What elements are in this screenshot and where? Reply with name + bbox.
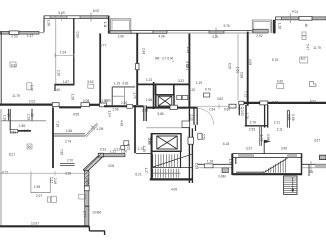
svg-text:0.61: 0.61 bbox=[100, 147, 106, 151]
svg-text:5.76: 5.76 bbox=[272, 58, 278, 62]
svg-text:0.98: 0.98 bbox=[266, 134, 270, 140]
svg-text:1.66: 1.66 bbox=[180, 106, 186, 110]
svg-text:2.70: 2.70 bbox=[67, 158, 73, 162]
svg-text:1.78: 1.78 bbox=[138, 147, 144, 151]
svg-text:2.11: 2.11 bbox=[277, 128, 283, 132]
svg-text:1.87: 1.87 bbox=[63, 80, 69, 84]
svg-text:6.21: 6.21 bbox=[135, 173, 141, 177]
svg-text:11.79: 11.79 bbox=[313, 46, 321, 50]
svg-text:4.08: 4.08 bbox=[158, 34, 164, 38]
svg-text:3.82: 3.82 bbox=[217, 97, 223, 101]
svg-text:1.62: 1.62 bbox=[148, 139, 152, 145]
svg-text:0.8M: 0.8M bbox=[218, 175, 225, 179]
svg-text:4.48: 4.48 bbox=[120, 120, 124, 126]
svg-text:0.60: 0.60 bbox=[75, 31, 79, 37]
svg-text:5.86: 5.86 bbox=[157, 112, 163, 116]
svg-text:1.07: 1.07 bbox=[29, 85, 33, 91]
svg-text:4.55: 4.55 bbox=[73, 112, 79, 116]
svg-text:1.79: 1.79 bbox=[132, 92, 136, 98]
svg-text:2.48: 2.48 bbox=[53, 178, 57, 184]
svg-text:1.63: 1.63 bbox=[195, 163, 199, 169]
svg-text:8.21: 8.21 bbox=[9, 152, 15, 156]
svg-text:1.18: 1.18 bbox=[207, 159, 213, 163]
svg-text:1.98: 1.98 bbox=[3, 115, 7, 121]
svg-text:1.26: 1.26 bbox=[287, 114, 291, 120]
svg-text:1.78: 1.78 bbox=[245, 113, 249, 119]
svg-text:7.72: 7.72 bbox=[244, 91, 248, 97]
svg-text:60: 60 bbox=[28, 145, 32, 149]
svg-text:1.50: 1.50 bbox=[121, 150, 127, 154]
svg-text:3.20: 3.20 bbox=[212, 35, 218, 39]
svg-text:6.95: 6.95 bbox=[228, 63, 232, 69]
svg-text:10.9M: 10.9M bbox=[92, 210, 101, 214]
svg-text:P.01: P.01 bbox=[292, 10, 298, 14]
svg-text:2.74: 2.74 bbox=[65, 139, 71, 143]
svg-text:2.48: 2.48 bbox=[142, 48, 146, 54]
svg-text:99t - 2.7.6 Ж: 99t - 2.7.6 Ж bbox=[155, 57, 173, 61]
svg-text:2.86: 2.86 bbox=[86, 178, 90, 184]
svg-text:2.02: 2.02 bbox=[127, 144, 131, 150]
svg-text:2.77: 2.77 bbox=[83, 211, 87, 217]
svg-text:1.26: 1.26 bbox=[278, 23, 282, 29]
svg-text:2.78: 2.78 bbox=[250, 120, 256, 124]
svg-text:2.99: 2.99 bbox=[118, 34, 124, 38]
svg-text:1.21: 1.21 bbox=[110, 150, 116, 154]
svg-text:0.70: 0.70 bbox=[205, 88, 211, 92]
svg-text:7.85: 7.85 bbox=[60, 149, 64, 155]
svg-text:7.16: 7.16 bbox=[56, 121, 60, 127]
svg-text:4.72: 4.72 bbox=[2, 170, 8, 174]
svg-text:2.21: 2.21 bbox=[274, 120, 280, 124]
svg-text:6.18: 6.18 bbox=[223, 142, 229, 146]
svg-text:4.06: 4.06 bbox=[171, 188, 177, 192]
svg-text:0.81: 0.81 bbox=[122, 81, 128, 85]
svg-text:1.23: 1.23 bbox=[146, 78, 152, 82]
svg-text:4.06: 4.06 bbox=[108, 164, 114, 168]
svg-text:5.77: 5.77 bbox=[100, 44, 106, 48]
svg-text:1.98: 1.98 bbox=[47, 20, 51, 26]
svg-text:6.00: 6.00 bbox=[93, 9, 99, 13]
svg-text:1.2M: 1.2M bbox=[96, 127, 103, 131]
svg-text:1.95: 1.95 bbox=[34, 185, 40, 189]
svg-text:18: 18 bbox=[304, 23, 308, 27]
svg-text:0.66: 0.66 bbox=[291, 114, 295, 120]
svg-text:2.02: 2.02 bbox=[29, 100, 35, 104]
svg-text:2.28: 2.28 bbox=[27, 114, 31, 120]
svg-text:2.12: 2.12 bbox=[142, 108, 148, 112]
svg-text:11.79: 11.79 bbox=[12, 94, 20, 98]
svg-text:2.19: 2.19 bbox=[190, 114, 194, 120]
svg-text:3.40: 3.40 bbox=[281, 147, 287, 151]
svg-text:2.08: 2.08 bbox=[83, 99, 89, 103]
svg-text:10.97: 10.97 bbox=[31, 221, 39, 225]
svg-text:1.65: 1.65 bbox=[236, 67, 240, 73]
svg-text:5.0: 5.0 bbox=[301, 57, 306, 61]
svg-text:6.09: 6.09 bbox=[58, 11, 64, 15]
svg-text:1.14: 1.14 bbox=[108, 110, 112, 116]
svg-text:8.62: 8.62 bbox=[310, 100, 316, 104]
svg-text:5.41: 5.41 bbox=[185, 61, 189, 67]
svg-text:1.19: 1.19 bbox=[114, 81, 120, 85]
svg-text:1.47: 1.47 bbox=[27, 34, 33, 38]
svg-text:1.93: 1.93 bbox=[104, 98, 110, 102]
svg-text:1.29: 1.29 bbox=[196, 81, 202, 85]
svg-text:1.37: 1.37 bbox=[228, 159, 232, 165]
svg-text:1.98: 1.98 bbox=[71, 94, 75, 100]
svg-text:1.86: 1.86 bbox=[66, 129, 72, 133]
svg-text:2.96: 2.96 bbox=[112, 108, 118, 112]
svg-text:2.54: 2.54 bbox=[209, 107, 215, 111]
svg-text:5.47: 5.47 bbox=[306, 44, 310, 50]
svg-text:5.62: 5.62 bbox=[87, 80, 93, 84]
svg-text:1.66: 1.66 bbox=[146, 98, 152, 102]
svg-text:0.92: 0.92 bbox=[240, 110, 244, 116]
svg-text:2.20: 2.20 bbox=[189, 88, 195, 92]
svg-text:9.76: 9.76 bbox=[223, 24, 229, 28]
svg-text:2.92: 2.92 bbox=[256, 34, 262, 38]
svg-text:4.58: 4.58 bbox=[248, 59, 252, 65]
svg-text:3.67: 3.67 bbox=[314, 139, 320, 143]
svg-text:96t: 96t bbox=[309, 170, 314, 174]
svg-text:3.60: 3.60 bbox=[54, 88, 60, 92]
svg-text:1.11: 1.11 bbox=[103, 22, 107, 28]
svg-text:1.94: 1.94 bbox=[60, 51, 66, 55]
svg-text:1.71: 1.71 bbox=[259, 135, 263, 141]
svg-text:+: + bbox=[172, 59, 174, 63]
svg-text:1.27: 1.27 bbox=[144, 167, 148, 173]
svg-text:2.53: 2.53 bbox=[249, 128, 255, 132]
svg-text:0.59: 0.59 bbox=[10, 130, 16, 134]
svg-text:0.60: 0.60 bbox=[224, 107, 230, 111]
svg-text:1.86: 1.86 bbox=[19, 124, 25, 128]
svg-text:2.17: 2.17 bbox=[50, 177, 54, 183]
svg-text:0.60: 0.60 bbox=[277, 80, 283, 84]
svg-text:0.7: 0.7 bbox=[24, 129, 29, 133]
svg-text:2.39: 2.39 bbox=[56, 70, 60, 76]
svg-text:3.37: 3.37 bbox=[246, 147, 252, 151]
svg-text:3.22: 3.22 bbox=[178, 79, 184, 83]
svg-text:2.07: 2.07 bbox=[36, 194, 42, 198]
svg-text:3.39: 3.39 bbox=[65, 171, 71, 175]
svg-text:5.50: 5.50 bbox=[202, 134, 206, 140]
svg-text:2.20: 2.20 bbox=[121, 101, 127, 105]
svg-text:0.88: 0.88 bbox=[240, 72, 244, 78]
svg-text:0.50: 0.50 bbox=[11, 35, 17, 39]
svg-text:1.48: 1.48 bbox=[186, 47, 190, 53]
svg-text:6.37: 6.37 bbox=[272, 100, 278, 104]
svg-text:0.61: 0.61 bbox=[11, 64, 17, 68]
